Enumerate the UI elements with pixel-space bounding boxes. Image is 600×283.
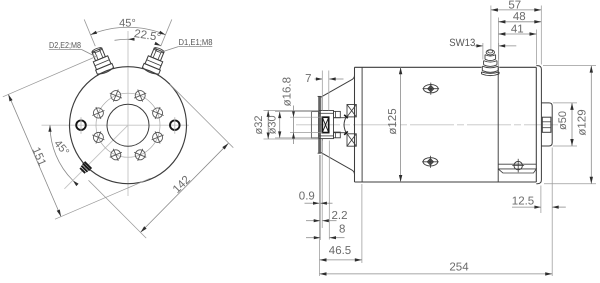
svg-text:48: 48: [513, 11, 526, 23]
hatched stud at 225deg: [80, 162, 91, 173]
shaft shoulder curve: [344, 116, 346, 133]
dim 2.2: [306, 220, 320, 222]
ext cap right up: [540, 6, 542, 65]
ext body right up: [536, 30, 538, 65]
svg-text:41: 41: [511, 23, 524, 35]
dim o129: [590, 66, 592, 184]
svg-text:57: 57: [508, 0, 521, 11]
dim arc 22.5deg (broken around text): [115, 39, 134, 40]
dim 142 ext lower: [89, 180, 147, 238]
dim o32 ext lines: [264, 109, 319, 111]
coupling internal band lines: [319, 112, 334, 114]
bearing upper (box with X): [347, 105, 356, 117]
dim o30: [279, 112, 281, 138]
centerline horizontal (front view): [42, 124, 190, 126]
bearing lower (box with X): [347, 134, 356, 146]
dim 142 line: [141, 143, 229, 232]
ext seam up: [497, 18, 499, 67]
svg-text:12.5: 12.5: [512, 195, 534, 207]
dim o16.8: [293, 106, 295, 145]
dim 46.5: [320, 259, 362, 261]
bolt hole at 22.5deg: [134, 89, 147, 102]
centerline 45deg diagonal (front view): [64, 125, 128, 189]
left mounting hole: [76, 120, 86, 130]
motor body (yoke) outline: [355, 67, 537, 182]
right mounting hole: [170, 120, 180, 130]
coupling outer sleeve: [319, 111, 334, 139]
svg-text:ø125: ø125: [387, 108, 399, 134]
shaft right collar lower: [334, 132, 341, 138]
body screw lower: [423, 158, 438, 166]
drive end bracket band seam: [361, 67, 363, 182]
coupling sleeve wall section (thick box with X): [322, 117, 328, 132]
dim o125: [400, 67, 402, 182]
bolt circle: [96, 93, 160, 157]
svg-text:ø30: ø30: [266, 115, 278, 134]
svg-text:45°: 45°: [119, 18, 136, 30]
SW13 ext lines: [482, 43, 484, 60]
clamp screw: [514, 161, 522, 169]
dim 151 line: [8, 94, 61, 216]
dim 151 ext top: [3, 56, 98, 97]
stud centerline ext: [490, 6, 492, 50]
svg-text:7: 7: [305, 73, 311, 85]
svg-text:D2,E2;M8: D2,E2;M8: [49, 40, 81, 50]
drive end cone upper: [321, 75, 355, 97]
svg-text:0.9: 0.9: [299, 191, 315, 203]
bolt hole at 337.5deg: [109, 89, 122, 102]
clamp band bottom: [498, 163, 536, 165]
flange center bore: [107, 104, 149, 146]
dim 12.5: [512, 206, 541, 208]
svg-text:SW13: SW13: [449, 37, 475, 49]
dim 7: [315, 78, 323, 80]
dim o16.8 ext lines: [290, 116, 322, 118]
mounting flange plate (double line): [318, 96, 320, 153]
svg-text:8: 8: [339, 224, 345, 236]
dim 48: [498, 21, 541, 23]
dim o129 ext lines: [543, 65, 596, 67]
svg-text:46.5: 46.5: [329, 245, 351, 257]
svg-text:2.2: 2.2: [332, 210, 348, 222]
terminal stud D1 (M8): [142, 16, 180, 76]
svg-text:ø129: ø129: [577, 109, 589, 135]
ext verticals below (flange faces etc.): [319, 155, 321, 276]
svg-text:ø16.8: ø16.8: [282, 77, 294, 106]
shaft nut on cap boss: [542, 117, 551, 132]
coupling left collar: [311, 112, 318, 138]
bolt hole at 292.5deg: [92, 106, 105, 119]
bolt hole at 67.5deg: [151, 106, 164, 119]
svg-text:254: 254: [449, 262, 469, 274]
dim arc 45deg lower: [50, 125, 73, 180]
terminal stud D2 (M8): [76, 16, 114, 76]
dim 41: [498, 33, 536, 35]
bolt hole at 202.5deg: [109, 148, 122, 161]
dim o30 ext lines: [275, 111, 311, 113]
body screw upper: [424, 85, 439, 93]
dim o32: [267, 110, 269, 139]
shaft lines to bearing: [334, 117, 348, 119]
dim 8: [306, 237, 320, 239]
svg-text:ø32: ø32: [253, 116, 265, 135]
cap bearing boss (o50): [541, 103, 552, 146]
shaft right collar upper: [334, 111, 341, 117]
bolt hole at 247.5deg: [92, 131, 105, 144]
ext lines for 7 (down through coupling): [321, 71, 323, 111]
svg-text:ø50: ø50: [557, 111, 569, 130]
dim 151 ext bottom: [55, 178, 151, 219]
dim 142 ext upper: [170, 84, 234, 148]
SW13 dim arrows: [475, 45, 483, 47]
dim o50: [571, 103, 573, 146]
dim 12.5 ext lines: [540, 186, 542, 214]
centerline horizontal (side view): [296, 124, 558, 126]
dim arc 45deg top: [91, 27, 166, 34]
dim o50 ext lines: [553, 102, 577, 104]
dim 254: [320, 273, 553, 275]
svg-text:D1,E1;M8: D1,E1;M8: [179, 37, 213, 47]
flange outer circle: [70, 67, 187, 184]
centerline vertical (front view): [127, 31, 129, 196]
yoke/cap seam: [497, 67, 499, 182]
dim 0.9: [305, 202, 320, 204]
drive end cone lower: [321, 152, 355, 174]
pilot step verticals: [321, 97, 323, 110]
bolt hole at 157.5deg: [134, 148, 147, 161]
end cap (o129): [536, 66, 541, 184]
bolt hole at 112.5deg: [151, 131, 164, 144]
dim 57: [491, 9, 541, 11]
SW13 terminal stud on cap: [486, 50, 494, 55]
